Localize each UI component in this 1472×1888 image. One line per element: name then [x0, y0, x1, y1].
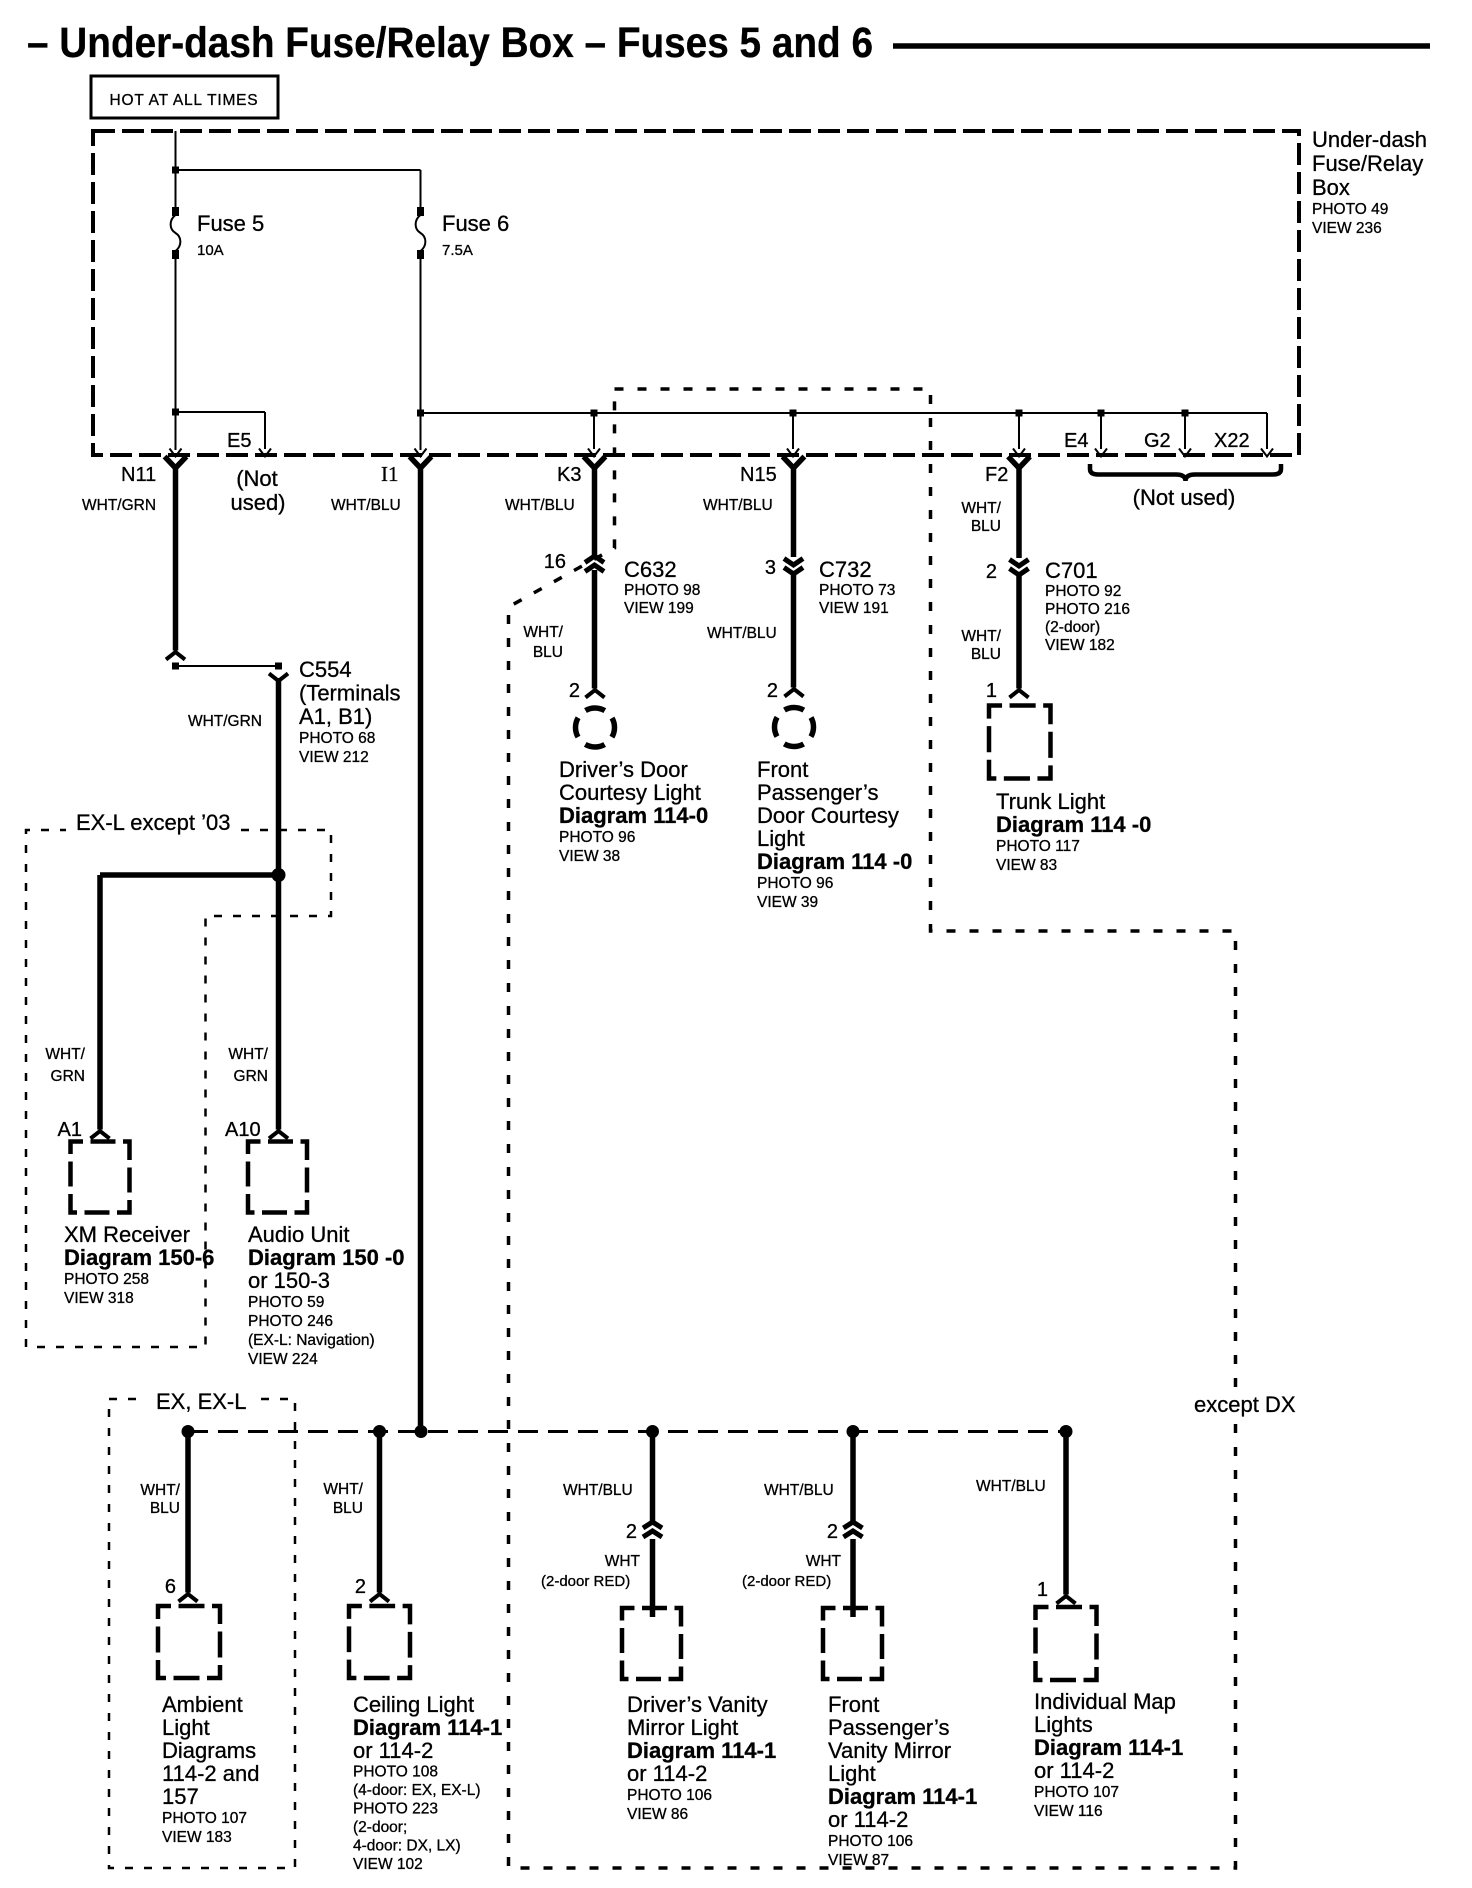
svg-text:(2-door;: (2-door; — [353, 1819, 407, 1836]
svg-text:Audio Unit: Audio Unit — [248, 1222, 350, 1247]
connector fork F2 — [1010, 459, 1028, 469]
svg-text:PHOTO 73: PHOTO 73 — [819, 582, 895, 599]
terminal A1 cap XM — [91, 1131, 110, 1139]
svg-text:WHT/: WHT/ — [140, 1482, 180, 1499]
svg-text:Driver’s Vanity: Driver’s Vanity — [627, 1692, 768, 1717]
svg-text:WHT/BLU: WHT/BLU — [707, 625, 777, 642]
wire B1 down to audio unit — [276, 678, 282, 1130]
svg-text:C701: C701 — [1045, 558, 1098, 583]
svg-text:BLU: BLU — [971, 518, 1001, 535]
svg-text:VIEW 199: VIEW 199 — [624, 600, 694, 617]
svg-text:Door Courtesy: Door Courtesy — [757, 803, 899, 828]
ambient light box — [158, 1606, 220, 1678]
svg-text:A10: A10 — [225, 1119, 261, 1141]
drop wire to F2 — [1018, 413, 1020, 449]
svg-text:EX, EX-L: EX, EX-L — [156, 1389, 246, 1414]
svg-text:WHT: WHT — [806, 1553, 842, 1570]
junction dot driver vanity — [646, 1425, 659, 1438]
svg-text:WHT/BLU: WHT/BLU — [703, 497, 773, 514]
svg-text:Diagram 114-0: Diagram 114-0 — [559, 803, 708, 828]
svg-text:VIEW 102: VIEW 102 — [353, 1856, 423, 1873]
svg-text:VIEW 38: VIEW 38 — [559, 848, 620, 865]
svg-text:WHT/BLU: WHT/BLU — [764, 1482, 834, 1499]
connector fork K3 — [586, 459, 604, 469]
wire fuse 6 down to I1 — [420, 255, 422, 450]
wire WHT to drivers vanity light — [650, 1539, 656, 1617]
svg-text:VIEW 39: VIEW 39 — [757, 894, 818, 911]
svg-text:Diagram 114-1: Diagram 114-1 — [353, 1715, 502, 1740]
svg-text:WHT/BLU: WHT/BLU — [505, 497, 575, 514]
connector C701 pins 2-1 — [1010, 560, 1029, 567]
junction dot map lights — [1060, 1425, 1073, 1438]
wire feed to fuse 6 — [176, 169, 421, 171]
svg-text:2: 2 — [355, 1576, 366, 1598]
svg-text:WHT/: WHT/ — [228, 1046, 268, 1063]
svg-text:VIEW 212: VIEW 212 — [299, 749, 369, 766]
svg-text:C632: C632 — [624, 557, 677, 582]
svg-text:Light: Light — [757, 826, 805, 851]
svg-text:PHOTO 107: PHOTO 107 — [162, 1810, 247, 1827]
terminal cap ambient — [179, 1594, 198, 1602]
svg-text:Diagram 114-1: Diagram 114-1 — [1034, 1735, 1183, 1760]
EX-L except 03 dashed region — [26, 830, 331, 1347]
svg-text:(Terminals: (Terminals — [299, 681, 400, 706]
svg-text:I1: I1 — [381, 462, 399, 486]
lamp front passengers door courtesy light — [775, 708, 814, 747]
svg-text:Diagrams: Diagrams — [162, 1738, 256, 1763]
wire down to fuse 6 — [420, 170, 422, 213]
svg-text:(Not: (Not — [236, 466, 278, 491]
except DX dashed region — [509, 389, 1236, 1868]
svg-text:C554: C554 — [299, 657, 352, 682]
svg-text:114-2 and: 114-2 and — [162, 1761, 259, 1786]
connector pin 2 passenger vanity — [844, 1522, 863, 1528]
svg-text:PHOTO 258: PHOTO 258 — [64, 1271, 149, 1288]
connector fork I1 — [412, 459, 430, 469]
wire C732 to courtesy light — [791, 574, 797, 688]
svg-text:K3: K3 — [557, 464, 581, 486]
svg-text:VIEW 116: VIEW 116 — [1034, 1803, 1103, 1820]
svg-text:6: 6 — [165, 1576, 176, 1598]
svg-text:VIEW 87: VIEW 87 — [828, 1852, 889, 1869]
terminal cap courtesy light 2 — [785, 689, 804, 697]
junction dot ceiling — [373, 1425, 386, 1438]
svg-text:WHT/: WHT/ — [961, 500, 1001, 517]
svg-text:2: 2 — [827, 1521, 838, 1543]
svg-text:Passenger’s: Passenger’s — [757, 780, 878, 805]
drop wire to E4 — [1100, 413, 1102, 449]
svg-text:WHT/GRN: WHT/GRN — [188, 713, 262, 730]
svg-text:Front: Front — [757, 757, 808, 782]
svg-text:Diagram 114-1: Diagram 114-1 — [627, 1738, 776, 1763]
junction dot K3 — [591, 410, 598, 417]
svg-text:WHT/BLU: WHT/BLU — [563, 1482, 633, 1499]
svg-text:2: 2 — [569, 680, 580, 702]
svg-text:PHOTO 98: PHOTO 98 — [624, 582, 700, 599]
svg-text:PHOTO 246: PHOTO 246 — [248, 1313, 333, 1330]
svg-text:WHT/: WHT/ — [45, 1046, 85, 1063]
terminal cap courtesy light — [586, 690, 605, 698]
front passengers vanity mirror light box — [823, 1608, 882, 1679]
svg-text:X22: X22 — [1214, 430, 1250, 452]
svg-text:WHT/: WHT/ — [961, 628, 1001, 645]
svg-text:PHOTO 108: PHOTO 108 — [353, 1764, 438, 1781]
wire WHT to passengers vanity light — [850, 1539, 856, 1617]
wire to individual map lights — [1063, 1432, 1069, 1595]
svg-text:Front: Front — [828, 1692, 879, 1717]
svg-text:Vanity Mirror: Vanity Mirror — [828, 1738, 951, 1763]
svg-text:– Under-dash Fuse/Relay Box –: – Under-dash Fuse/Relay Box – Fuses 5 an… — [27, 19, 873, 67]
svg-text:VIEW 183: VIEW 183 — [162, 1829, 232, 1846]
svg-text:Ceiling Light: Ceiling Light — [353, 1692, 474, 1717]
svg-text:PHOTO 223: PHOTO 223 — [353, 1801, 438, 1818]
svg-text:VIEW 86: VIEW 86 — [627, 1806, 688, 1823]
wire to drivers vanity light — [650, 1432, 656, 1523]
arrow into F2 — [1013, 449, 1025, 457]
wire to ambient light — [185, 1432, 191, 1593]
svg-text:Diagram 150 -0: Diagram 150 -0 — [248, 1245, 405, 1270]
terminal cap trunk light — [1010, 690, 1029, 698]
arrow into I1 — [415, 449, 427, 457]
svg-text:1: 1 — [986, 680, 997, 702]
svg-text:(2-door RED): (2-door RED) — [541, 1573, 630, 1590]
svg-text:EX-L except ’03: EX-L except ’03 — [76, 810, 231, 835]
svg-text:PHOTO 49: PHOTO 49 — [1312, 201, 1388, 218]
fuse F6 symbol — [417, 207, 424, 216]
wire from box top to fuse 5 — [175, 131, 177, 213]
branch wire to XM receiver — [100, 872, 281, 878]
title rule line — [893, 43, 1430, 49]
svg-text:(4-door: EX, EX-L): (4-door: EX, EX-L) — [353, 1782, 481, 1799]
svg-text:or 114-2: or 114-2 — [828, 1807, 908, 1832]
svg-text:Trunk Light: Trunk Light — [996, 789, 1105, 814]
bus wire to X22 — [421, 412, 1268, 414]
svg-text:E5: E5 — [227, 430, 251, 452]
junction dot I1 drop — [415, 1425, 428, 1438]
link wire C554 — [176, 665, 279, 667]
svg-text:used): used) — [230, 490, 285, 515]
arrow into N15 — [787, 449, 799, 457]
XM receiver box — [71, 1142, 130, 1213]
svg-text:VIEW 182: VIEW 182 — [1045, 637, 1115, 654]
svg-text:A1, B1): A1, B1) — [299, 704, 372, 729]
trunk light box — [989, 706, 1051, 779]
junction node EX-L branch — [272, 868, 286, 882]
drivers vanity mirror light box — [622, 1608, 681, 1679]
svg-text:WHT/GRN: WHT/GRN — [82, 497, 156, 514]
svg-text:(2-door RED): (2-door RED) — [742, 1573, 831, 1590]
svg-text:Diagram 150-6: Diagram 150-6 — [64, 1245, 214, 1270]
svg-text:WHT/: WHT/ — [523, 624, 563, 641]
junction dot to E5 — [172, 409, 179, 416]
svg-text:VIEW 83: VIEW 83 — [996, 857, 1057, 874]
svg-text:Ambient: Ambient — [162, 1692, 243, 1717]
under-dash fuse/relay box outline — [93, 131, 1299, 455]
arrow into K3 — [588, 449, 600, 457]
brace (Not used) group — [1090, 464, 1281, 481]
svg-text:Light: Light — [162, 1715, 210, 1740]
terminal cap ceiling — [370, 1594, 389, 1602]
wire C701 to trunk light — [1016, 575, 1022, 689]
arrow into E4 — [1095, 449, 1107, 457]
junction dot fuse feed — [172, 167, 179, 174]
arrow into G2 — [1179, 449, 1191, 457]
svg-text:VIEW 191: VIEW 191 — [819, 600, 889, 617]
svg-text:Driver’s Door: Driver’s Door — [559, 757, 688, 782]
connector C732 pins 3-2 — [784, 559, 803, 566]
terminal A10 cap audio — [269, 1131, 288, 1139]
svg-text:E4: E4 — [1064, 430, 1088, 452]
svg-text:Fuse 5: Fuse 5 — [197, 211, 264, 236]
svg-text:except DX: except DX — [1194, 1392, 1296, 1417]
svg-text:HOT AT ALL TIMES: HOT AT ALL TIMES — [110, 92, 259, 109]
svg-text:XM Receiver: XM Receiver — [64, 1222, 190, 1247]
junction dot C554 right — [275, 663, 282, 670]
junction dot C554 left — [172, 663, 179, 670]
svg-text:GRN: GRN — [234, 1068, 268, 1085]
svg-text:Fuse 6: Fuse 6 — [442, 211, 509, 236]
junction dot F2 — [1016, 410, 1023, 417]
arrow into E5 — [259, 449, 271, 457]
junction dot passenger vanity — [847, 1425, 860, 1438]
drop wire to N15 — [792, 413, 794, 449]
svg-text:WHT/: WHT/ — [323, 1481, 363, 1498]
wire I1 WHT/BLU long drop — [418, 466, 424, 1432]
svg-text:4-door: DX, LX): 4-door: DX, LX) — [353, 1838, 461, 1855]
svg-text:3: 3 — [765, 557, 776, 579]
arrow into N11 — [170, 449, 182, 457]
svg-text:WHT/BLU: WHT/BLU — [331, 497, 401, 514]
svg-text:N11: N11 — [121, 464, 156, 486]
svg-text:BLU: BLU — [971, 646, 1001, 663]
drop wire to K3 — [593, 413, 595, 449]
svg-text:2: 2 — [626, 1521, 637, 1543]
svg-text:BLU: BLU — [150, 1500, 180, 1517]
wire to ceiling light — [377, 1432, 383, 1593]
svg-text:PHOTO 68: PHOTO 68 — [299, 730, 375, 747]
connector fork N15 — [785, 459, 803, 469]
svg-text:Courtesy Light: Courtesy Light — [559, 780, 701, 805]
wire to passengers vanity light — [850, 1432, 856, 1523]
drop wire to G2 — [1184, 413, 1186, 449]
connector pin 2 driver vanity — [643, 1522, 662, 1528]
svg-text:PHOTO 216: PHOTO 216 — [1045, 601, 1130, 618]
svg-text:A1: A1 — [58, 1119, 82, 1141]
svg-text:GRN: GRN — [51, 1068, 85, 1085]
svg-text:PHOTO 92: PHOTO 92 — [1045, 583, 1121, 600]
svg-text:or 114-2: or 114-2 — [627, 1761, 707, 1786]
svg-text:VIEW 236: VIEW 236 — [1312, 220, 1382, 237]
svg-text:(EX-L: Navigation): (EX-L: Navigation) — [248, 1332, 375, 1349]
svg-text:(2-door): (2-door) — [1045, 619, 1100, 636]
svg-text:PHOTO 106: PHOTO 106 — [627, 1787, 712, 1804]
junction dot E4 — [1098, 410, 1105, 417]
svg-text:PHOTO 106: PHOTO 106 — [828, 1833, 913, 1850]
svg-text:16: 16 — [544, 551, 566, 573]
svg-text:7.5A: 7.5A — [442, 242, 473, 259]
wire F2 WHT/BLU — [1016, 466, 1022, 558]
svg-text:157: 157 — [162, 1784, 199, 1809]
svg-text:PHOTO 107: PHOTO 107 — [1034, 1784, 1119, 1801]
terminal B1 fork C554 — [269, 674, 288, 682]
EX EX-L dashed region — [109, 1399, 295, 1868]
junction dot bus — [417, 410, 424, 417]
svg-text:VIEW 318: VIEW 318 — [64, 1290, 134, 1307]
wire to E5 — [176, 411, 266, 413]
connector C632 pins 16-2 — [585, 556, 604, 563]
wire N15 WHT/BLU — [791, 466, 797, 557]
svg-text:or 114-2: or 114-2 — [1034, 1758, 1114, 1783]
svg-text:Mirror Light: Mirror Light — [627, 1715, 738, 1740]
svg-text:1: 1 — [1037, 1579, 1048, 1601]
svg-text:PHOTO 117: PHOTO 117 — [996, 838, 1080, 855]
svg-text:Passenger’s: Passenger’s — [828, 1715, 949, 1740]
audio unit box — [248, 1142, 307, 1213]
svg-text:N15: N15 — [740, 464, 777, 486]
svg-text:Individual Map: Individual Map — [1034, 1689, 1176, 1714]
svg-text:BLU: BLU — [533, 644, 563, 661]
svg-text:WHT: WHT — [605, 1553, 641, 1570]
junction dot ambient — [182, 1425, 195, 1438]
svg-text:Diagram 114 -0: Diagram 114 -0 — [757, 849, 912, 874]
junction dot N15 — [790, 410, 797, 417]
wire K3 WHT/BLU — [592, 466, 598, 556]
svg-text:10A: 10A — [197, 242, 224, 259]
svg-text:F2: F2 — [985, 464, 1008, 486]
svg-text:PHOTO 96: PHOTO 96 — [757, 875, 833, 892]
svg-text:or 150-3: or 150-3 — [248, 1268, 330, 1293]
svg-text:Diagram 114-1: Diagram 114-1 — [828, 1784, 977, 1809]
svg-text:Fuse/Relay: Fuse/Relay — [1312, 151, 1423, 176]
individual map lights box — [1036, 1607, 1097, 1680]
svg-text:C732: C732 — [819, 557, 872, 582]
fuse F5 symbol — [172, 208, 179, 215]
wire fuse 5 to N11 — [175, 255, 177, 450]
svg-text:G2: G2 — [1144, 430, 1171, 452]
wire N11 WHT/GRN — [173, 466, 179, 651]
svg-text:BLU: BLU — [333, 1500, 363, 1517]
wire down to XM receiver — [97, 875, 103, 1130]
arrow into X22 — [1261, 449, 1273, 457]
bus wire bottom WHT/BLU — [188, 1430, 1066, 1433]
ceiling light box — [349, 1606, 410, 1678]
lamp drivers door courtesy light — [576, 708, 615, 747]
svg-text:PHOTO 96: PHOTO 96 — [559, 829, 635, 846]
svg-text:(Not used): (Not used) — [1133, 485, 1236, 510]
svg-text:Diagram 114 -0: Diagram 114 -0 — [996, 812, 1151, 837]
svg-text:2: 2 — [986, 561, 997, 583]
HOT AT ALL TIMES label box — [91, 76, 278, 118]
svg-text:2: 2 — [767, 680, 778, 702]
terminal A1 cap C554 — [166, 652, 185, 660]
svg-text:Light: Light — [828, 1761, 876, 1786]
svg-text:Box: Box — [1312, 175, 1350, 200]
svg-text:VIEW 224: VIEW 224 — [248, 1351, 318, 1368]
terminal cap map lights — [1057, 1596, 1076, 1604]
svg-text:Under-dash: Under-dash — [1312, 127, 1427, 152]
junction dot G2 — [1182, 410, 1189, 417]
svg-text:WHT/BLU: WHT/BLU — [976, 1478, 1046, 1495]
svg-text:or 114-2: or 114-2 — [353, 1738, 433, 1763]
svg-text:Lights: Lights — [1034, 1712, 1093, 1737]
connector fork N11 — [167, 459, 185, 469]
svg-text:PHOTO 59: PHOTO 59 — [248, 1294, 324, 1311]
wire C632 to courtesy light — [592, 570, 598, 689]
